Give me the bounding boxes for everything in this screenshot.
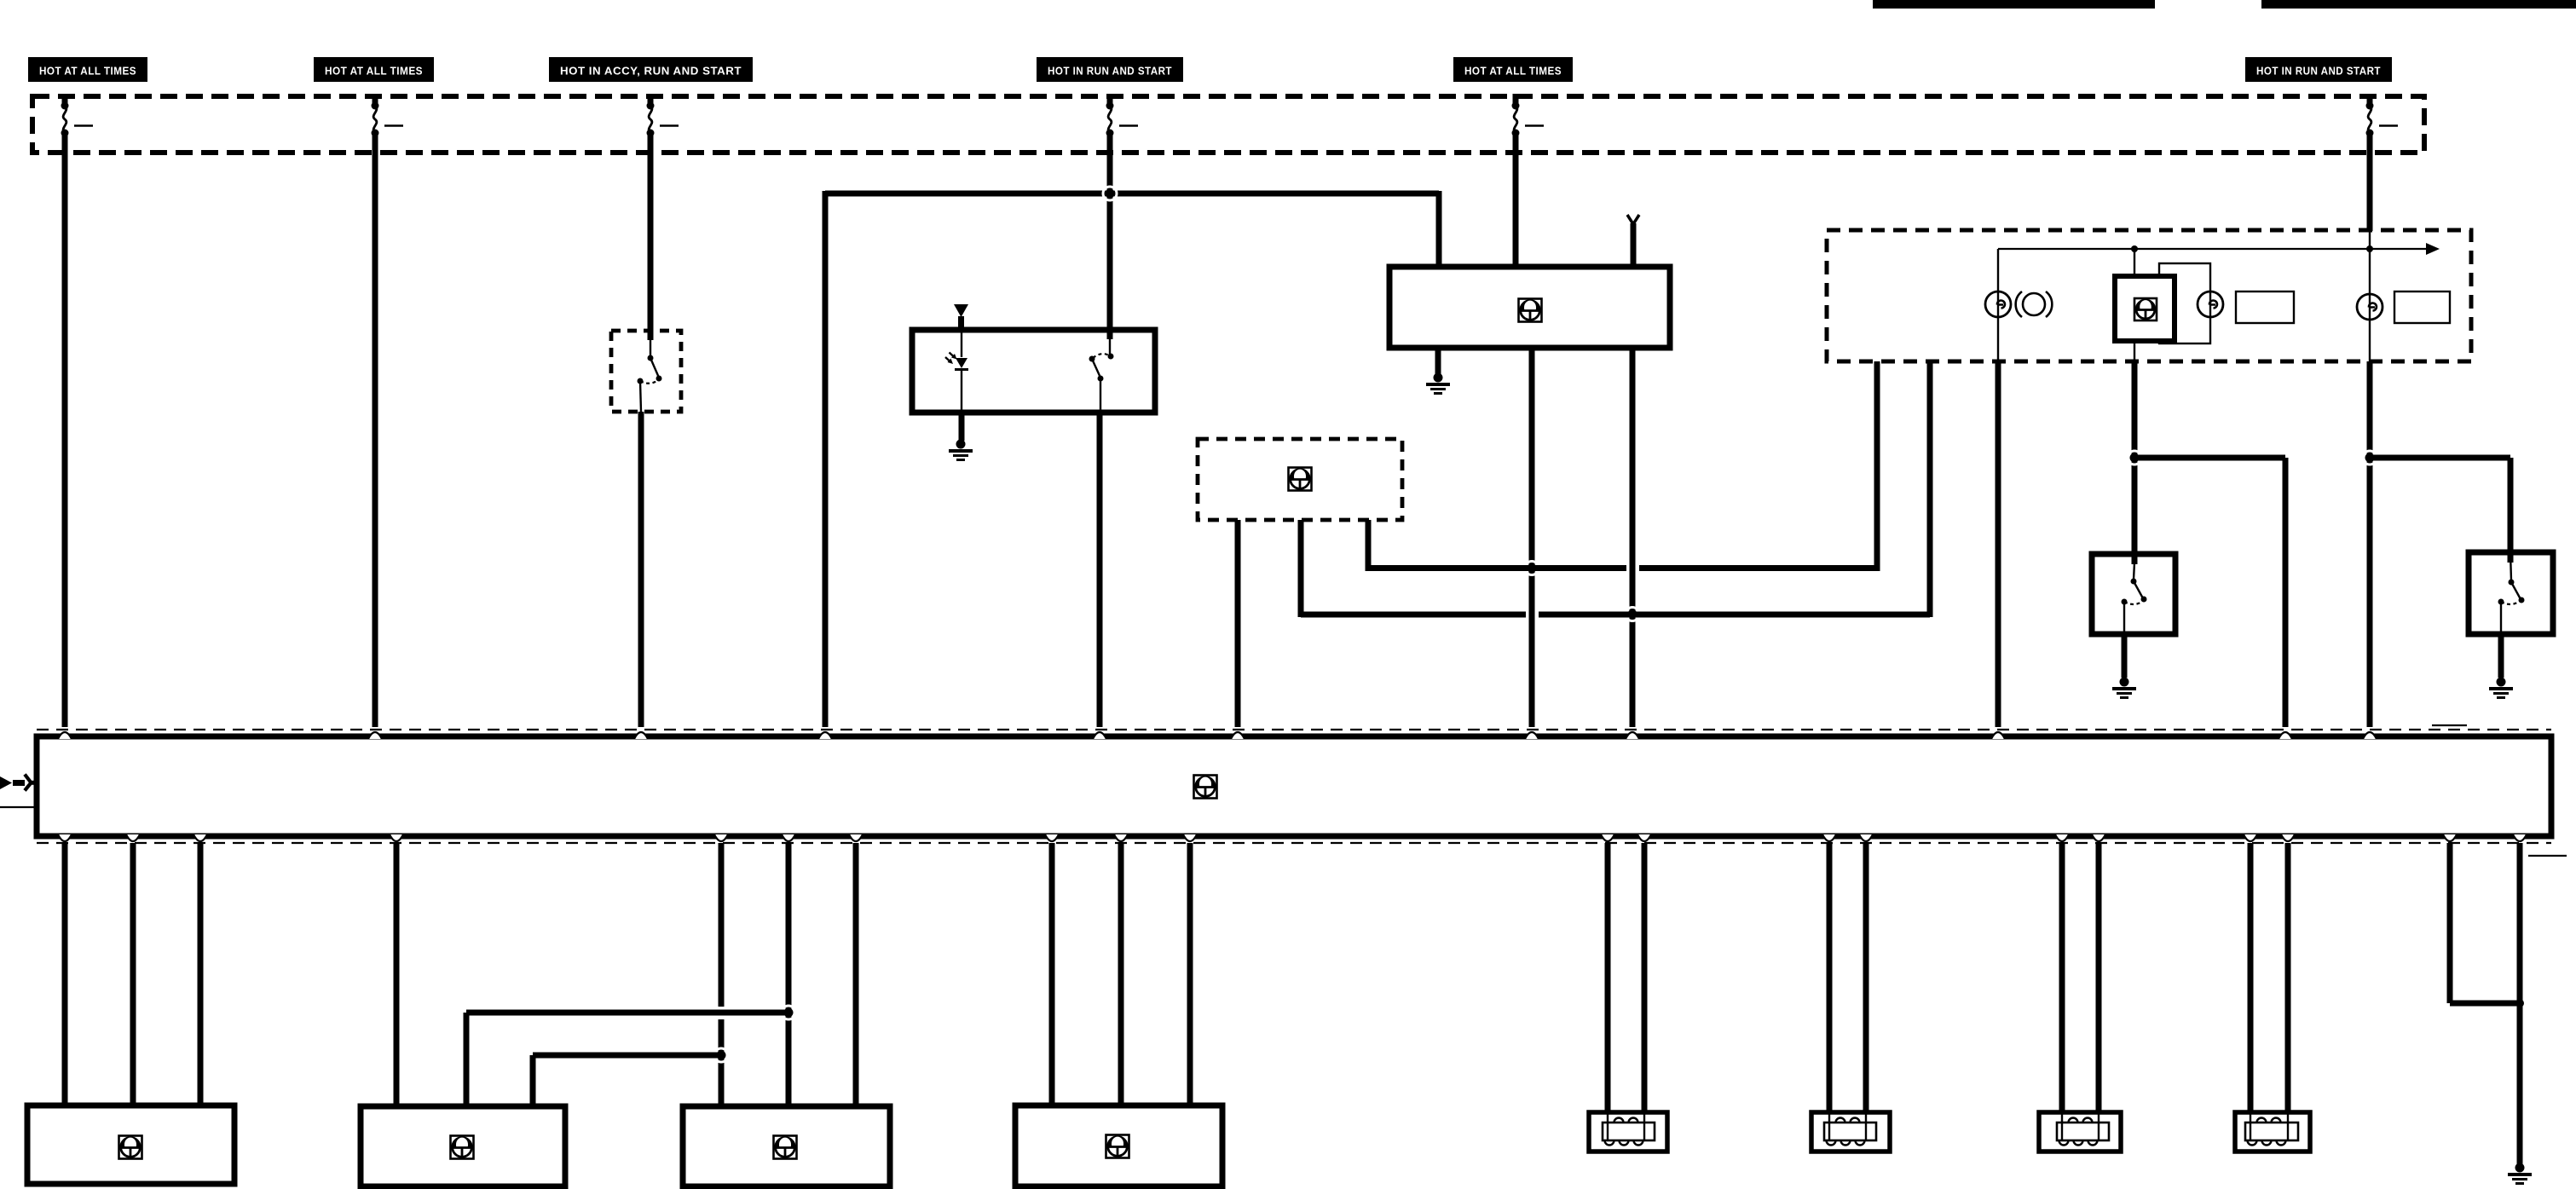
junction B branch	[2363, 451, 2377, 465]
wire branch left (node A)	[825, 191, 1439, 197]
bulb L0	[1985, 291, 2011, 317]
wire coil2 pin2	[1863, 843, 1869, 1112]
connector bump bottom pin x=2684	[2281, 834, 2295, 841]
connector bump bottom pin x=2462	[2092, 834, 2105, 841]
wire coil3 pin1	[2059, 843, 2065, 1112]
interior lamp / switch box M	[912, 330, 1155, 413]
ground (bottom right)	[2515, 1163, 2525, 1173]
wire coil1 pin1	[1605, 843, 1611, 1112]
coil connector box 4	[2235, 1112, 2310, 1151]
label HOT IN ACCY, RUN AND START (fuse F3)	[549, 57, 753, 82]
connector bump bottom pin x=465	[390, 834, 403, 841]
svg-text:HOT AT ALL TIMES: HOT AT ALL TIMES	[39, 65, 136, 78]
connector bump top pin x=2344	[1991, 732, 2005, 739]
wire lamp L0 to control unit	[1996, 361, 2001, 727]
wire pin B10	[1187, 843, 1193, 1105]
coil connector box 2	[1811, 1112, 1890, 1151]
connector bump bottom pin x=2419	[2055, 834, 2069, 841]
wire K pin3 with jog (line1)	[1366, 520, 1372, 571]
wire switch S0 to control unit	[638, 412, 644, 727]
jog wire to box B pin3	[466, 1010, 788, 1016]
fuse F1	[62, 94, 68, 104]
arrow feed into box M	[954, 304, 968, 317]
switch in box M	[1109, 338, 1111, 355]
component box B	[361, 1106, 565, 1186]
connector bump bottom pin x=2874	[2443, 834, 2457, 841]
connector bump top pin x=440	[368, 732, 382, 739]
connector bump bottom pin x=1004	[849, 834, 863, 841]
switch S1 box	[2092, 554, 2175, 634]
wire pin B7	[853, 843, 859, 1106]
node on signal line (security box)	[2131, 245, 2138, 252]
wire pin B1	[62, 843, 68, 1105]
fuse F4	[1107, 94, 1113, 104]
connector bump bottom pin x=76	[58, 834, 72, 841]
coil connector box 3	[2039, 1112, 2121, 1151]
wire pin B5 lower part	[719, 1019, 725, 1106]
svg-text:HOT IN ACCY, RUN AND START: HOT IN ACCY, RUN AND START	[560, 65, 742, 78]
wire coil4 pin2	[2285, 843, 2291, 1112]
fuse F5	[1513, 94, 1519, 104]
switch S1 ground wire	[2122, 634, 2128, 678]
switch S2 ground wire	[2498, 634, 2504, 678]
connector bump bottom pin x=1396	[1183, 834, 1197, 841]
wire fuse F5 to box U	[1513, 158, 1519, 267]
connector bump top pin x=1915	[1626, 732, 1639, 739]
node A junction	[1103, 187, 1117, 200]
connector bump bottom pin x=235	[193, 834, 207, 841]
connector bump bottom pin x=1315	[1114, 834, 1128, 841]
fuse box (dashed)	[32, 96, 2424, 153]
wire K pin2 with jog (line2)	[1298, 520, 1304, 617]
stub line left of control unit	[0, 806, 37, 808]
junction line2 x relay wire	[1626, 608, 1639, 621]
label HOT AT ALL TIMES (fuse F1)	[28, 57, 147, 82]
wire A security to switch S1	[2132, 361, 2138, 564]
title block bar 2 (top right)	[2261, 0, 2576, 9]
component box A	[27, 1105, 234, 1184]
component box C	[683, 1106, 890, 1186]
svg-text:HOT AT ALL TIMES: HOT AT ALL TIMES	[325, 65, 423, 78]
fuse F3	[648, 94, 654, 104]
connector bump bottom pin x=156	[126, 834, 140, 841]
connector bump bottom pin x=1234	[1045, 834, 1059, 841]
fuse F2	[373, 94, 378, 104]
component box D	[1015, 1105, 1222, 1186]
wire box U pin2 to control unit	[1529, 348, 1535, 727]
signal line with arrow	[1998, 248, 2429, 250]
wire to ground (bottom right)	[2517, 843, 2523, 1164]
bulb L1	[2198, 291, 2223, 317]
switch S1 contacts	[2134, 563, 2134, 580]
wire pin B6 (to box C)	[786, 843, 792, 1106]
lamp L0b	[2023, 293, 2045, 315]
connector bump bottom pin x=2956	[2513, 834, 2527, 841]
ground stub from box U	[1435, 348, 1441, 375]
jog wire to box B pin2	[533, 1053, 721, 1059]
connector bump top pin x=2780	[2363, 732, 2377, 739]
switch S2 contacts	[2510, 552, 2511, 580]
wire loop R1	[2159, 263, 2210, 343]
connector bump top pin x=2681	[2279, 732, 2292, 739]
ground (S1)	[2120, 678, 2129, 687]
wire coil1 pin2	[1642, 843, 1648, 1112]
security indicator box S3	[2134, 249, 2135, 276]
connector dashed line (bottom of control unit)	[37, 842, 2551, 844]
wire fuse F3 to switch S0	[648, 158, 654, 340]
icon in box B	[451, 1136, 474, 1159]
wire label dash (lower right)	[2528, 855, 2567, 857]
antenna symbol	[1627, 215, 1639, 224]
junction B5 jog	[714, 1048, 728, 1062]
svg-text:HOT IN RUN AND START: HOT IN RUN AND START	[2256, 65, 2381, 78]
svg-text:HOT IN RUN AND START: HOT IN RUN AND START	[1048, 65, 1172, 78]
connector bump bottom pin x=2146	[1822, 834, 1836, 841]
relay box U	[1389, 267, 1670, 348]
label HOT IN RUN AND START (fuse F4)	[1037, 57, 1183, 82]
wire pin B4	[394, 843, 400, 1106]
wire pin B9	[1118, 843, 1124, 1105]
switch S2 box	[2469, 552, 2553, 634]
connector bump top pin x=968	[818, 732, 832, 739]
wire K pin1 to control unit	[1235, 520, 1241, 727]
junction right jog	[2515, 999, 2524, 1007]
label HOT IN RUN AND START (fuse F6)	[2245, 57, 2392, 82]
wire box U pin3 to control unit	[1630, 348, 1636, 727]
icon in box C	[774, 1136, 797, 1159]
ground (box U)	[1434, 373, 1443, 383]
icon in box A	[119, 1136, 142, 1159]
indicator LED in box M	[961, 330, 962, 357]
wire fuse F6 to control unit	[2367, 361, 2373, 727]
label HOT AT ALL TIMES (fuse F2)	[314, 57, 434, 82]
wire branch right to relay box	[1436, 191, 1442, 267]
branch B to switch S2	[2370, 455, 2510, 461]
connector bump top pin x=76	[58, 732, 72, 739]
connector bump bottom pin x=925	[782, 834, 795, 841]
control unit box	[37, 736, 2551, 836]
bulb L2 on power wire	[2357, 294, 2383, 320]
wire pin B2	[130, 843, 136, 1105]
svg-text:HOT AT ALL TIMES: HOT AT ALL TIMES	[1464, 65, 1562, 78]
icon in box D	[1106, 1135, 1129, 1158]
bulb L2 wire	[2134, 341, 2135, 361]
connector bump top pin x=752	[634, 732, 648, 739]
wire switch M to control unit	[1097, 413, 1103, 727]
wire fuse F1 to control unit	[62, 158, 68, 727]
wire pin B5 (to box C) upper part	[719, 843, 725, 1007]
switch S0 box (dashed)	[611, 331, 681, 412]
wire fuse F6 thin inside receiver box	[2369, 230, 2371, 361]
wire right jog	[2447, 843, 2453, 1003]
wire coil4 pin1	[2248, 843, 2254, 1112]
connector bump bottom pin x=1929	[1637, 834, 1651, 841]
connector bump top pin x=1290	[1093, 732, 1106, 739]
junction B6 jog	[782, 1006, 795, 1019]
connector dashed line (top of control unit)	[37, 729, 2551, 730]
junction line1 x relay wire	[1525, 562, 1539, 575]
connector bump bottom pin x=2189	[1859, 834, 1873, 841]
page connector arrow (left)	[0, 776, 12, 789]
wire pin B3	[198, 843, 204, 1105]
connector bump bottom pin x=846	[714, 834, 728, 841]
wire pin B8	[1049, 843, 1055, 1105]
switch S0 contacts	[650, 339, 651, 356]
icon in box K	[1289, 468, 1312, 491]
signal line corner down	[1997, 249, 1999, 361]
connector rect R3	[2394, 291, 2450, 323]
connector bump top pin x=1797	[1525, 732, 1539, 739]
connector rect R2	[2236, 291, 2294, 323]
wire fuse F6 thick upper	[2367, 158, 2373, 231]
clock spring box K (dashed)	[1198, 439, 1402, 520]
wire fuse F2 to control unit	[373, 158, 378, 727]
icon in control unit	[1194, 776, 1217, 799]
coil connector box 1	[1589, 1112, 1667, 1151]
connector bump bottom pin x=1886	[1601, 834, 1614, 841]
wire coil2 pin1	[1827, 843, 1833, 1112]
junction A branch	[2128, 451, 2141, 465]
wire label dash (F6 pin)	[2432, 724, 2467, 726]
connector bump top pin x=1452	[1231, 732, 1245, 739]
keyless receiver box (dashed)	[1827, 230, 2471, 361]
title block bar 1 (top right)	[1873, 0, 2155, 9]
icon in box U	[1519, 299, 1542, 322]
connector bump bottom pin x=2640	[2244, 834, 2257, 841]
fuse F6	[2367, 94, 2373, 104]
node on signal line (power wire)	[2366, 245, 2373, 252]
ground (LED)	[956, 440, 966, 449]
icon in box S3	[2134, 298, 2157, 320]
LED ground wire	[959, 413, 965, 441]
ground (S2)	[2497, 678, 2506, 687]
label HOT AT ALL TIMES (fuse F5)	[1453, 57, 1573, 82]
wire coil3 pin2	[2096, 843, 2102, 1112]
wire fuse F4 down	[1107, 158, 1113, 339]
branch A to control unit	[2132, 455, 2285, 461]
